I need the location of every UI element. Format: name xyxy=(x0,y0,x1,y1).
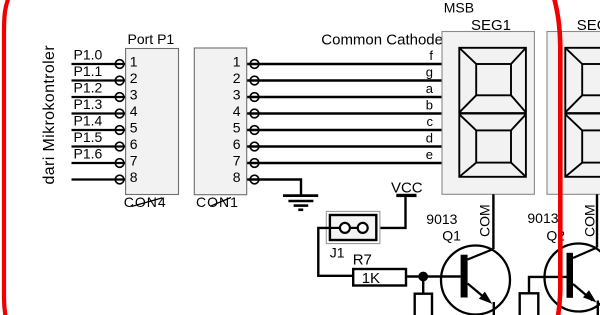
connector CON4 xyxy=(115,49,178,195)
wire CON1 pin 6 to SEG1 d xyxy=(247,145,442,147)
wire R7 to Q1 base xyxy=(406,275,461,277)
7-segment display SEG1 xyxy=(442,32,534,195)
wire CON1 pin 8 to ground xyxy=(247,180,301,196)
resistor R7 xyxy=(353,269,406,287)
wire P1.4 to CON4 pin 5 xyxy=(72,129,126,131)
wire P1.6 to CON4 pin 7 xyxy=(72,162,126,164)
wire CON1 pin 3 to SEG1 a xyxy=(247,96,442,98)
connector CON1 xyxy=(194,48,258,195)
7-segment display SEG2 xyxy=(547,32,600,195)
wire P1.1 to CON4 pin 2 xyxy=(72,79,126,81)
wire VCC to J1 pin 2 xyxy=(368,197,406,228)
power VCC xyxy=(391,180,423,198)
wire Q2 collector to SEG2 COM xyxy=(596,194,598,247)
transistor Q2 xyxy=(545,244,600,315)
wire to CON4 pin 8 xyxy=(72,178,126,180)
wire P1.5 to CON4 pin 6 xyxy=(72,145,126,147)
transistor Q1 xyxy=(441,246,510,315)
wire P1.2 to CON4 pin 3 xyxy=(72,96,126,98)
wire CON1 pin 1 to SEG1 f xyxy=(247,63,442,65)
wire J1 pin 1 to R7 xyxy=(318,228,353,276)
wire Q2 base resistor xyxy=(529,277,567,293)
wire CON1 pin 7 to SEG1 e xyxy=(247,162,442,164)
wire CON1 pin 5 to SEG1 c xyxy=(247,129,442,131)
wire Q1 collector to SEG1 COM xyxy=(492,194,494,249)
wire P1.3 to CON4 pin 4 xyxy=(72,112,126,114)
wire CON1 pin 2 to SEG1 g xyxy=(247,79,442,81)
wire junction to resistor below xyxy=(422,277,424,294)
wire P1.0 to CON4 pin 1 xyxy=(72,63,126,65)
resistor (unlabeled) below Q2 base xyxy=(520,293,539,315)
connector J1 xyxy=(326,211,380,243)
wire CON1 pin 4 to SEG1 b xyxy=(247,112,442,114)
junction node at R7 / Q1 base xyxy=(418,272,428,282)
resistor (unlabeled) below Q1 base junction xyxy=(415,294,432,315)
ground xyxy=(283,196,318,210)
